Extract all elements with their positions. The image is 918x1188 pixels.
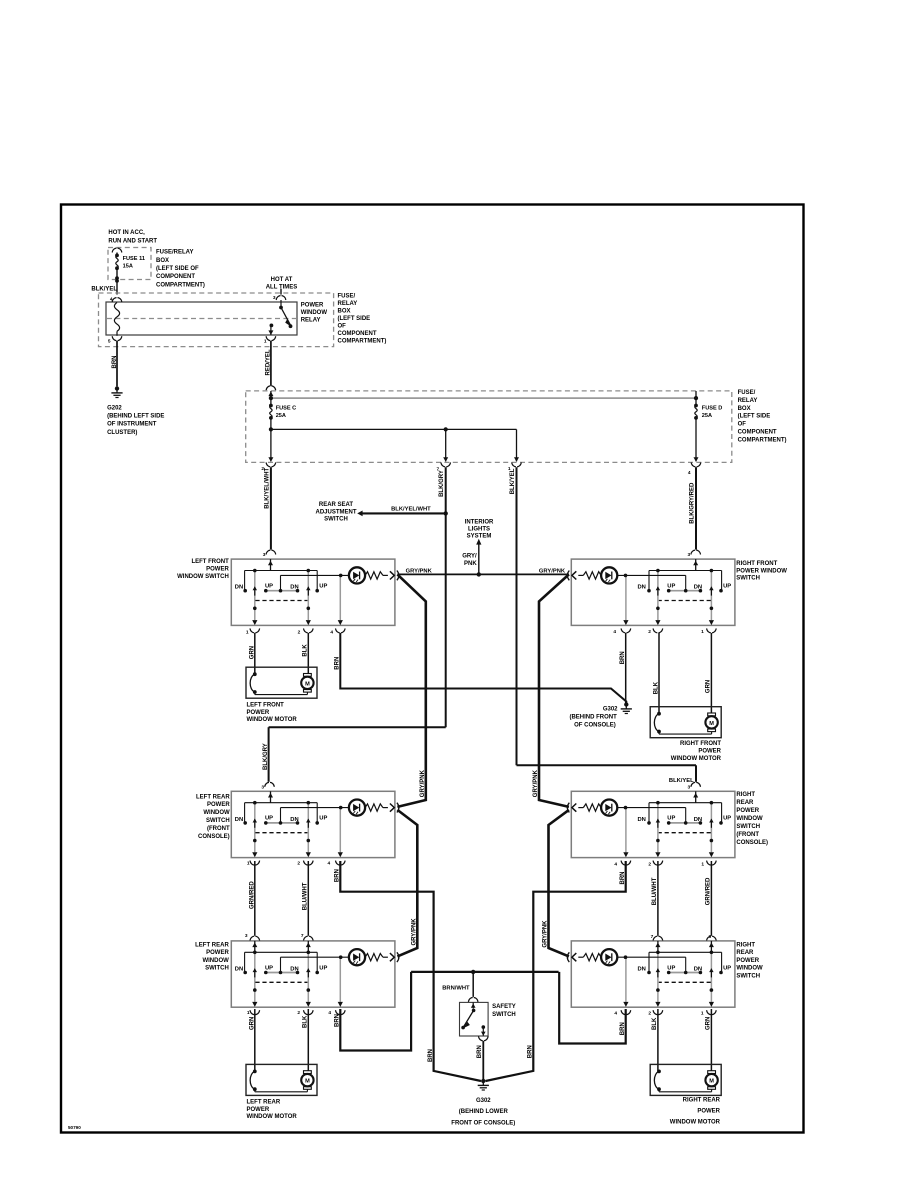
svg-text:WINDOW SWITCH: WINDOW SWITCH (177, 574, 229, 580)
svg-text:BLK/YEL: BLK/YEL (669, 778, 694, 784)
svg-text:RIGHT: RIGHT (736, 792, 755, 798)
svg-text:POWER: POWER (698, 749, 721, 755)
svg-text:POWER: POWER (247, 1107, 270, 1113)
svg-text:LEFT REAR: LEFT REAR (196, 794, 230, 800)
svg-text:FUSE D: FUSE D (702, 406, 723, 412)
svg-text:DN: DN (290, 585, 298, 591)
svg-text:UP: UP (723, 816, 731, 822)
svg-text:4: 4 (328, 1010, 331, 1016)
svg-text:15A: 15A (123, 264, 133, 270)
svg-text:3: 3 (688, 784, 691, 790)
svg-text:1: 1 (264, 338, 267, 344)
svg-text:BLU/WHT: BLU/WHT (652, 877, 658, 905)
svg-text:POWER: POWER (697, 1109, 720, 1115)
svg-text:CLUSTER): CLUSTER) (107, 430, 137, 436)
svg-text:SWITCH: SWITCH (736, 974, 760, 980)
svg-text:REAR: REAR (736, 800, 754, 806)
svg-text:UP: UP (265, 816, 273, 822)
svg-text:COMPARTMENT): COMPARTMENT) (338, 339, 387, 345)
svg-text:GRY/PNK: GRY/PNK (420, 769, 426, 797)
svg-text:(FRONT: (FRONT (207, 826, 230, 832)
svg-text:RIGHT FRONT: RIGHT FRONT (680, 741, 721, 747)
svg-text:RUN AND START: RUN AND START (108, 239, 157, 245)
svg-text:DN: DN (235, 967, 243, 973)
svg-text:4: 4 (328, 861, 331, 867)
svg-text:REAR: REAR (736, 950, 754, 956)
svg-text:GRN: GRN (249, 1017, 255, 1030)
svg-text:BRN: BRN (335, 657, 341, 670)
svg-text:1: 1 (247, 1010, 250, 1016)
svg-text:SAFETY: SAFETY (492, 1004, 516, 1010)
svg-text:(LEFT SIDE: (LEFT SIDE (338, 316, 371, 322)
svg-text:UP: UP (265, 965, 273, 971)
svg-text:BRN: BRN (112, 356, 118, 369)
svg-text:GRY/PNK: GRY/PNK (543, 920, 549, 948)
svg-text:BRN: BRN (620, 651, 626, 664)
svg-text:FUSE C: FUSE C (276, 406, 297, 412)
svg-text:BRN: BRN (528, 1045, 534, 1058)
svg-text:2: 2 (297, 861, 300, 867)
svg-text:LEFT FRONT: LEFT FRONT (191, 559, 229, 565)
svg-text:POWER: POWER (206, 566, 229, 572)
svg-text:WINDOW: WINDOW (301, 310, 328, 316)
svg-text:BLK/YEL/WHT: BLK/YEL/WHT (265, 467, 271, 508)
svg-text:BRN: BRN (620, 1022, 626, 1035)
svg-text:BLK/GRY: BLK/GRY (263, 743, 269, 770)
svg-text:SWITCH: SWITCH (206, 818, 230, 824)
svg-text:OF CONSOLE): OF CONSOLE) (574, 723, 616, 729)
svg-text:WINDOW: WINDOW (202, 958, 229, 964)
svg-text:COMPARTMENT): COMPARTMENT) (156, 282, 205, 288)
svg-text:BLK: BLK (303, 1015, 309, 1028)
svg-text:BLK/GRY/RED: BLK/GRY/RED (690, 482, 696, 524)
svg-text:BOX: BOX (738, 406, 751, 412)
svg-text:GRY/PNK: GRY/PNK (412, 918, 418, 946)
svg-text:DN: DN (235, 585, 243, 591)
svg-text:OF: OF (738, 422, 747, 428)
svg-text:3: 3 (688, 552, 691, 558)
svg-text:4: 4 (614, 1011, 617, 1017)
svg-text:CONSOLE): CONSOLE) (198, 834, 230, 840)
svg-text:SWITCH: SWITCH (736, 824, 760, 830)
svg-text:2: 2 (648, 862, 651, 868)
svg-text:(BEHIND LEFT SIDE: (BEHIND LEFT SIDE (107, 414, 164, 420)
svg-text:2: 2 (648, 1011, 651, 1017)
svg-text:BLK: BLK (303, 644, 309, 657)
svg-text:DN: DN (290, 817, 298, 823)
svg-text:INTERIOR: INTERIOR (465, 519, 494, 525)
svg-text:POWER: POWER (736, 808, 759, 814)
svg-text:1: 1 (701, 1011, 704, 1017)
svg-text:BLK/YEL: BLK/YEL (91, 286, 117, 292)
svg-text:25A: 25A (702, 413, 712, 419)
svg-text:POWER WINDOW: POWER WINDOW (736, 568, 787, 574)
svg-text:BLK: BLK (652, 1017, 658, 1030)
svg-text:UP: UP (319, 816, 327, 822)
svg-text:DN: DN (235, 817, 243, 823)
svg-text:BRN: BRN (477, 1045, 483, 1058)
svg-text:7: 7 (301, 933, 304, 939)
svg-text:1: 1 (246, 630, 249, 636)
svg-text:HOT IN ACC,: HOT IN ACC, (108, 230, 145, 236)
svg-text:COMPONENT: COMPONENT (156, 274, 195, 280)
svg-text:RIGHT FRONT: RIGHT FRONT (736, 561, 777, 567)
svg-text:2: 2 (648, 629, 651, 635)
svg-text:UP: UP (723, 584, 731, 590)
svg-text:UP: UP (319, 584, 327, 590)
svg-text:RELAY: RELAY (301, 318, 321, 324)
svg-text:4: 4 (330, 630, 333, 636)
svg-text:4: 4 (614, 862, 617, 868)
svg-text:DN: DN (694, 967, 702, 973)
svg-text:GRN/RED: GRN/RED (249, 881, 255, 909)
svg-text:BRN/WHT: BRN/WHT (442, 985, 470, 991)
svg-text:DN: DN (638, 585, 646, 591)
svg-text:GRY/PNK: GRY/PNK (533, 769, 539, 797)
svg-text:G302: G302 (603, 706, 618, 712)
svg-text:UP: UP (667, 816, 675, 822)
svg-text:COMPARTMENT): COMPARTMENT) (738, 437, 787, 443)
svg-text:UP: UP (723, 965, 731, 971)
svg-text:GRY/PNK: GRY/PNK (539, 569, 566, 575)
svg-text:DN: DN (290, 967, 298, 973)
svg-text:4: 4 (688, 470, 691, 476)
svg-text:WINDOW MOTOR: WINDOW MOTOR (247, 717, 298, 723)
svg-text:BLK/YEL/WHT: BLK/YEL/WHT (391, 507, 431, 513)
svg-text:DN: DN (694, 585, 702, 591)
svg-text:1: 1 (701, 629, 704, 635)
svg-text:POWER: POWER (736, 958, 759, 964)
svg-text:POWER: POWER (207, 802, 230, 808)
svg-text:3: 3 (261, 784, 264, 790)
svg-text:BLK/YEL: BLK/YEL (510, 468, 516, 494)
svg-text:POWER: POWER (247, 710, 270, 716)
svg-text:2: 2 (297, 1010, 300, 1016)
svg-text:50790: 50790 (68, 1125, 81, 1130)
svg-text:GRY/: GRY/ (462, 553, 477, 559)
svg-text:GRN: GRN (706, 1017, 712, 1030)
svg-text:BRN: BRN (335, 869, 341, 882)
svg-text:WINDOW MOTOR: WINDOW MOTOR (247, 1114, 298, 1120)
svg-text:BOX: BOX (338, 308, 351, 314)
svg-text:SWITCH: SWITCH (736, 576, 760, 582)
svg-text:POWER: POWER (206, 950, 229, 956)
svg-text:COMPONENT: COMPONENT (338, 331, 377, 337)
svg-text:FUSE/: FUSE/ (738, 390, 756, 396)
svg-text:G302: G302 (476, 1098, 491, 1104)
svg-text:4: 4 (613, 629, 616, 635)
svg-text:UP: UP (667, 584, 675, 590)
svg-text:DN: DN (638, 967, 646, 973)
svg-text:PNK: PNK (464, 561, 477, 567)
svg-text:FUSE 11: FUSE 11 (123, 256, 145, 262)
svg-text:(BEHIND FRONT: (BEHIND FRONT (569, 715, 617, 721)
svg-text:UP: UP (265, 584, 273, 590)
svg-text:G202: G202 (107, 406, 122, 412)
svg-text:OF INSTRUMENT: OF INSTRUMENT (107, 422, 157, 428)
svg-text:LIGHTS: LIGHTS (468, 526, 490, 532)
svg-text:BOX: BOX (156, 258, 169, 264)
svg-text:REAR SEAT: REAR SEAT (319, 502, 354, 508)
svg-text:UP: UP (319, 965, 327, 971)
svg-text:DN: DN (638, 817, 646, 823)
svg-text:BRN: BRN (620, 872, 626, 885)
svg-text:GRN: GRN (706, 680, 712, 693)
svg-text:GRN: GRN (249, 646, 255, 659)
svg-text:5: 5 (108, 339, 111, 345)
svg-text:GRY/PNK: GRY/PNK (406, 569, 433, 575)
svg-text:LEFT FRONT: LEFT FRONT (247, 703, 285, 709)
svg-text:FRONT OF CONSOLE): FRONT OF CONSOLE) (451, 1120, 515, 1126)
svg-text:WINDOW: WINDOW (736, 816, 763, 822)
svg-text:WINDOW: WINDOW (203, 810, 230, 816)
svg-text:3: 3 (245, 933, 248, 939)
svg-text:SWITCH: SWITCH (492, 1012, 516, 1018)
svg-text:(FRONT: (FRONT (736, 832, 759, 838)
svg-text:BRN: BRN (335, 1014, 341, 1027)
svg-text:3: 3 (273, 295, 276, 301)
svg-text:DN: DN (694, 817, 702, 823)
svg-text:SWITCH: SWITCH (205, 966, 229, 972)
svg-text:WINDOW: WINDOW (736, 966, 763, 972)
svg-text:HOT AT: HOT AT (271, 277, 293, 283)
svg-text:SWITCH: SWITCH (324, 516, 348, 522)
svg-text:RELAY: RELAY (338, 301, 358, 307)
svg-text:OF: OF (338, 324, 347, 330)
svg-text:1: 1 (701, 862, 704, 868)
svg-text:SYSTEM: SYSTEM (467, 534, 492, 540)
svg-text:UP: UP (667, 965, 675, 971)
svg-text:RELAY: RELAY (738, 398, 758, 404)
svg-text:(LEFT SIDE OF: (LEFT SIDE OF (156, 266, 199, 272)
svg-text:GRN/RED: GRN/RED (706, 877, 712, 905)
svg-text:(BEHIND LOWER: (BEHIND LOWER (459, 1109, 509, 1115)
svg-text:1: 1 (247, 861, 250, 867)
svg-text:COMPONENT: COMPONENT (738, 430, 777, 436)
svg-text:FUSE/: FUSE/ (338, 293, 356, 299)
svg-text:BLK: BLK (653, 681, 659, 694)
svg-text:(LEFT SIDE: (LEFT SIDE (738, 414, 771, 420)
svg-text:LEFT REAR: LEFT REAR (195, 942, 229, 948)
svg-text:3: 3 (263, 552, 266, 558)
svg-text:RED/YEL: RED/YEL (265, 349, 271, 375)
svg-text:RIGHT REAR: RIGHT REAR (683, 1098, 721, 1104)
svg-text:BLU/WHT: BLU/WHT (303, 882, 309, 910)
svg-text:CONSOLE): CONSOLE) (736, 840, 768, 846)
svg-text:ADJUSTMENT: ADJUSTMENT (315, 509, 356, 515)
svg-text:FUSE/RELAY: FUSE/RELAY (156, 250, 193, 256)
svg-text:LEFT REAR: LEFT REAR (247, 1100, 281, 1106)
svg-text:RIGHT: RIGHT (736, 942, 755, 948)
svg-text:WINDOW MOTOR: WINDOW MOTOR (671, 756, 722, 762)
svg-text:POWER: POWER (301, 303, 324, 309)
svg-text:4: 4 (110, 296, 113, 302)
svg-text:BLK/GRY: BLK/GRY (439, 470, 445, 497)
svg-text:BRN: BRN (428, 1049, 434, 1062)
svg-text:25A: 25A (276, 413, 286, 419)
svg-text:2: 2 (298, 630, 301, 636)
svg-text:WINDOW MOTOR: WINDOW MOTOR (670, 1119, 721, 1125)
